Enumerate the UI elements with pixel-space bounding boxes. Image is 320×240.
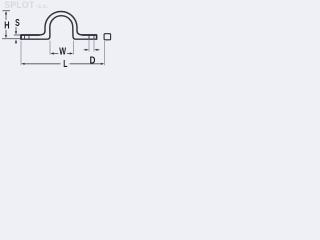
right plate end cap [96, 35, 98, 40]
left hole line 2 [28, 35, 30, 39]
D extension line right [93, 39, 95, 51]
S top extension tick [14, 34, 20, 36]
D extension line left [88, 39, 90, 51]
dimension W line + arrows [50, 52, 73, 54]
right hole line 1 [88, 35, 90, 39]
background [0, 0, 120, 79]
svg-text:H: H [4, 20, 9, 31]
W extension line left [49, 41, 51, 55]
eye strap front view outline [21, 12, 97, 40]
dimension D arrows [84, 49, 100, 51]
svg-text:L: L [63, 59, 67, 70]
svg-text:S: S [15, 18, 20, 29]
darker top edge of left plate [21, 34, 40, 36]
left plate end cap [20, 35, 22, 40]
W extension line right [73, 41, 75, 55]
base extension line (bottom edge extended left) [2, 38, 21, 40]
dimension S arrows [15, 27, 17, 44]
L extension line left [20, 41, 22, 66]
end (side) view small rectangle [104, 34, 111, 40]
svg-text:W: W [59, 46, 66, 57]
left hole line 1 [24, 35, 26, 39]
svg-text:D: D [90, 55, 96, 66]
right hole line 2 [93, 35, 95, 39]
darker top edge of right plate [82, 34, 97, 36]
dimension H line + arrows [5, 11, 7, 38]
L extension line right [104, 41, 106, 65]
H top extension tick [3, 10, 11, 12]
dimension L line + arrows [21, 63, 104, 65]
